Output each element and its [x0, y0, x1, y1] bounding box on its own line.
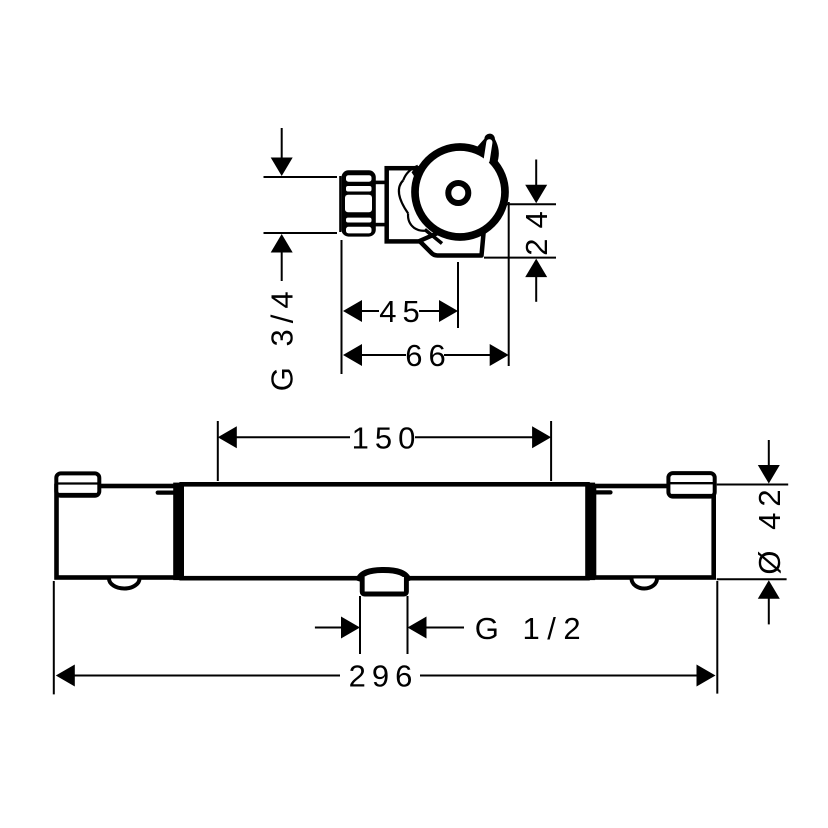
- union nut body: [342, 170, 376, 236]
- Ø42 arrows: [768, 440, 770, 468]
- ext line mid (valve centre): [457, 262, 459, 328]
- G1/2 ext lines: [359, 596, 361, 654]
- valve body: [387, 168, 449, 241]
- handle grip petals: [403, 166, 418, 181]
- left cap box: [56, 473, 99, 495]
- foot slot line: [425, 230, 442, 244]
- 150 dim: [218, 426, 237, 448]
- right joint: [587, 483, 596, 580]
- hub ring: [448, 183, 468, 203]
- svg-text:Ø 42: Ø 42: [752, 483, 787, 574]
- handle circle: [415, 147, 505, 237]
- 24 dim ext lines: [505, 203, 556, 205]
- 296 dim: [56, 665, 75, 687]
- Ø42 ext lines: [717, 484, 789, 486]
- main bar: [182, 484, 588, 578]
- right cap box: [668, 473, 714, 497]
- left bump: [109, 579, 140, 589]
- left dash: [158, 491, 175, 495]
- lever: [477, 134, 499, 162]
- foot bracket: [420, 228, 485, 256]
- svg-text:G 3/4: G 3/4: [265, 285, 300, 391]
- 45 dim: [343, 300, 362, 322]
- 296 ext lines: [53, 581, 55, 694]
- cartridge wedge at circle/body junction: [412, 166, 424, 177]
- ext line G3/4 top: [264, 176, 338, 178]
- left block: [57, 486, 180, 578]
- svg-text:G 1/2: G 1/2: [475, 611, 588, 646]
- svg-text:45: 45: [379, 294, 425, 329]
- ext line left (nut face): [341, 240, 343, 374]
- union nut left face: [339, 176, 341, 232]
- right bump: [632, 579, 658, 589]
- svg-text:296: 296: [349, 659, 419, 694]
- arrow up to G3/4 bottom: [271, 234, 293, 253]
- 66 dim: [343, 344, 362, 366]
- nipple between nut and body: [376, 181, 386, 185]
- outlet dome: [358, 570, 409, 581]
- outlet collar: [362, 577, 406, 594]
- right block: [594, 486, 714, 578]
- G1/2 arrows: [315, 627, 343, 629]
- 150 ext lines: [217, 421, 219, 481]
- right dash: [596, 490, 611, 494]
- ext line right (66): [508, 202, 510, 366]
- 24 arrows: [535, 160, 537, 189]
- ext line G3/4 bottom: [264, 232, 338, 234]
- svg-text:150: 150: [352, 421, 422, 456]
- left joint: [173, 483, 182, 580]
- svg-text:24: 24: [519, 201, 554, 255]
- arrow down to G3/4 top: [281, 128, 283, 162]
